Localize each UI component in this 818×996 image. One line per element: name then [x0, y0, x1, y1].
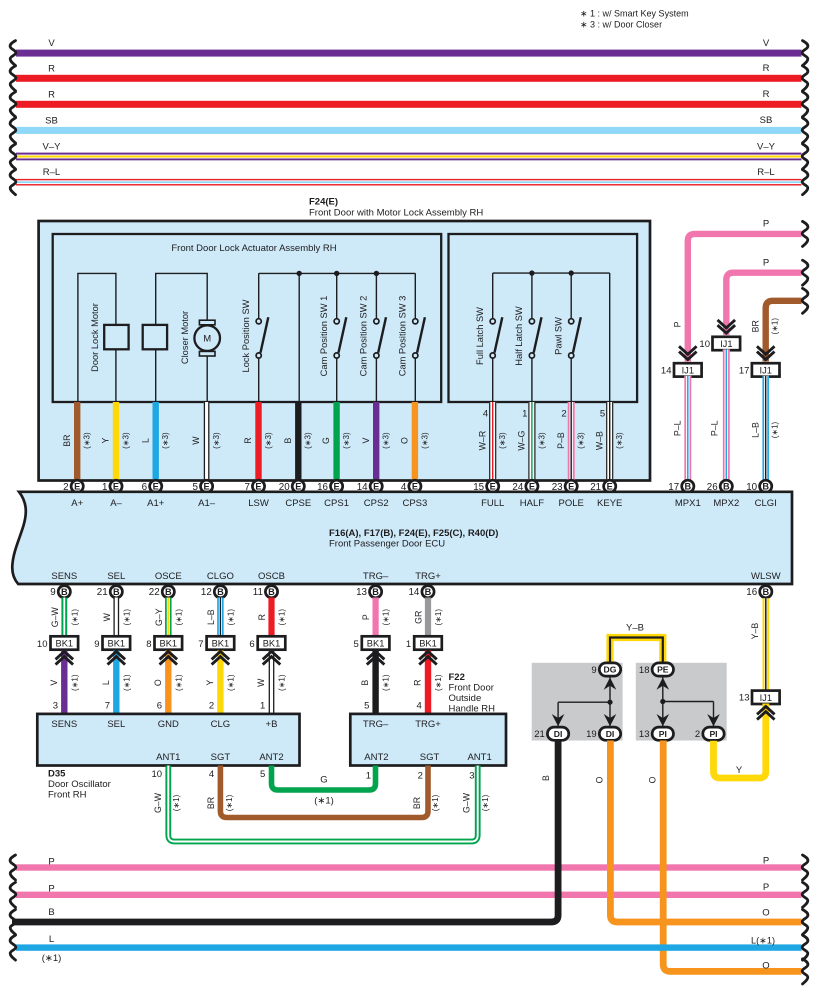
svg-text:R–L: R–L: [757, 167, 774, 178]
svg-text:SB: SB: [45, 115, 58, 126]
svg-text:L(∗1): L(∗1): [751, 936, 775, 946]
wire O orange from PI 13: [648, 741, 808, 984]
svg-text:16: 16: [746, 587, 757, 598]
svg-text:P–B: P–B: [556, 432, 566, 449]
switch Lock Position SW: [241, 273, 269, 402]
junction BK1 10: [37, 636, 78, 650]
wire G-Y to BK1: [154, 598, 183, 637]
svg-text:F16(A), F17(B), F24(E), F25(C): F16(A), F17(B), F24(E), F25(C), R40(D): [329, 528, 498, 539]
svg-text:10: 10: [699, 339, 710, 350]
svg-text:Pawl SW: Pawl SW: [553, 317, 563, 355]
wire CPSE vertical: [298, 273, 300, 402]
svg-text:P: P: [361, 614, 371, 620]
wire R top horizontal: [10, 89, 808, 117]
svg-text:A+: A+: [71, 498, 83, 509]
svg-text:R–L: R–L: [43, 167, 60, 178]
svg-text:G–W: G–W: [462, 792, 472, 813]
svg-text:CPSE: CPSE: [285, 498, 311, 509]
svg-text:SGT: SGT: [420, 752, 440, 763]
junction BK1 5: [354, 636, 390, 650]
wire P-L to MPX1: [673, 376, 692, 481]
pin 16(B) bottom: [746, 586, 772, 599]
wire stub V: [361, 402, 391, 481]
svg-text:P: P: [672, 321, 682, 327]
svg-text:2: 2: [209, 701, 214, 712]
pin 21(B) bottom: [97, 586, 123, 599]
svg-text:W–R: W–R: [477, 431, 487, 451]
svg-text:V: V: [48, 38, 55, 49]
svg-text:(∗3): (∗3): [577, 432, 586, 449]
svg-text:O: O: [400, 437, 410, 444]
svg-text:IJ1: IJ1: [682, 366, 694, 376]
wire Y-B WLSW: [750, 598, 769, 690]
svg-text:(∗3): (∗3): [537, 432, 546, 449]
wire BR antenna SGT-SGT: [206, 766, 440, 818]
svg-text:(∗3): (∗3): [420, 432, 429, 449]
wire V top horizontal: [10, 38, 808, 66]
svg-text:4: 4: [209, 769, 214, 780]
wire Y to lower block: [205, 651, 235, 714]
svg-text:SENS: SENS: [51, 571, 77, 582]
wire O orange from DI 19: [595, 741, 808, 935]
svg-text:2: 2: [695, 729, 700, 740]
svg-text:B: B: [113, 587, 120, 597]
wire P-L to MPX2: [710, 349, 730, 480]
wire Y-B bridge: [610, 622, 663, 666]
svg-text:(∗1): (∗1): [278, 674, 287, 691]
ECU bottom pin labels: [51, 571, 780, 582]
svg-text:Front RH: Front RH: [48, 790, 87, 801]
svg-text:DI: DI: [606, 729, 615, 739]
svg-text:CLGO: CLGO: [207, 571, 234, 582]
wire stub B: [283, 402, 313, 481]
pin 14(B) bottom: [408, 586, 434, 599]
svg-text:14: 14: [408, 587, 419, 598]
svg-text:(∗3): (∗3): [382, 432, 391, 449]
svg-text:L: L: [140, 438, 150, 443]
junction BK1 6: [249, 636, 285, 650]
svg-text:(∗3): (∗3): [342, 432, 351, 449]
wire R top horizontal: [10, 63, 808, 91]
switch Cam Position SW 1: [319, 273, 347, 402]
svg-text:Outside: Outside: [449, 693, 482, 704]
svg-text:W: W: [256, 678, 266, 687]
svg-text:P–L: P–L: [673, 420, 683, 436]
svg-text:13: 13: [739, 693, 750, 704]
gray junction box left: [532, 663, 623, 741]
block Front Passenger Door ECU: [12, 492, 792, 584]
svg-text:L: L: [49, 934, 54, 945]
svg-text:G: G: [320, 774, 327, 785]
svg-text:SENS: SENS: [51, 719, 77, 730]
svg-text:MPX2: MPX2: [713, 498, 739, 509]
pin 4(E): [401, 480, 421, 493]
svg-text:(∗1): (∗1): [172, 794, 181, 811]
svg-text:TRG–: TRG–: [363, 571, 389, 582]
svg-text:E: E: [255, 482, 261, 492]
svg-text:SB: SB: [760, 115, 773, 126]
wire R to lower block: [413, 651, 443, 714]
svg-text:R: R: [48, 63, 55, 74]
svg-text:B: B: [762, 587, 769, 597]
svg-text:ANT1: ANT1: [467, 752, 491, 763]
pin 2(E): [63, 480, 83, 493]
wire stub W-B: [594, 402, 624, 481]
svg-text:E: E: [568, 482, 574, 492]
connector 19 DI: [586, 727, 621, 740]
F22 bottom pin numbers: [366, 770, 475, 781]
svg-text:11: 11: [253, 587, 263, 598]
svg-text:P: P: [48, 883, 54, 894]
svg-text:∗ 1 : w/ Smart Key System: ∗ 1 : w/ Smart Key System: [580, 9, 689, 19]
svg-text:18: 18: [639, 665, 650, 676]
svg-text:B: B: [723, 482, 730, 492]
svg-text:R: R: [243, 437, 253, 443]
svg-text:E: E: [529, 482, 535, 492]
svg-text:10: 10: [37, 639, 48, 650]
svg-text:9: 9: [50, 587, 55, 598]
svg-text:B: B: [372, 587, 379, 597]
wire P bottom 2: [10, 882, 808, 907]
svg-text:Cam Position SW 1: Cam Position SW 1: [319, 296, 329, 377]
wire SB top horizontal: [10, 115, 808, 143]
pin 23(E): [552, 480, 578, 493]
svg-text:∗ 3 : w/ Door Closer: ∗ 3 : w/ Door Closer: [580, 20, 662, 30]
svg-text:LSW: LSW: [248, 498, 269, 509]
wire B black from DI: [10, 741, 558, 935]
wire KEYE vertical: [609, 273, 611, 402]
door lock motor M1 loop: [78, 273, 129, 402]
svg-text:1: 1: [366, 770, 371, 781]
note w/ Smart Key System: [580, 9, 689, 19]
pin 7(E): [244, 480, 264, 493]
svg-text:(∗1): (∗1): [434, 609, 443, 626]
svg-text:B: B: [684, 482, 691, 492]
pin 24(E): [512, 480, 538, 493]
svg-text:ANT2: ANT2: [364, 752, 388, 763]
svg-text:(∗1): (∗1): [227, 609, 236, 626]
svg-text:(∗3): (∗3): [161, 432, 170, 449]
svg-text:Half Latch SW: Half Latch SW: [514, 306, 524, 366]
svg-text:TRG–: TRG–: [363, 719, 389, 730]
node junction CPS2: [374, 271, 379, 276]
svg-text:SEL: SEL: [107, 719, 125, 730]
wire switch bus box1: [259, 272, 416, 274]
svg-text:ANT2: ANT2: [259, 752, 283, 763]
svg-text:CPS3: CPS3: [402, 498, 427, 509]
pin 13(B) bottom: [356, 586, 382, 599]
wire G-W to BK1: [50, 598, 79, 637]
junction BK1 1: [406, 636, 442, 650]
svg-text:SEL: SEL: [107, 571, 125, 582]
svg-text:5: 5: [354, 639, 359, 650]
svg-text:E: E: [373, 482, 379, 492]
switch Cam Position SW 2: [358, 273, 386, 402]
svg-text:G–W: G–W: [50, 606, 60, 627]
svg-text:Y: Y: [736, 765, 743, 776]
svg-text:BK1: BK1: [367, 639, 385, 649]
svg-text:P: P: [48, 856, 54, 867]
wire stub G: [321, 402, 351, 481]
svg-text:(∗1): (∗1): [174, 674, 183, 691]
svg-text:1: 1: [406, 639, 411, 650]
svg-text:E: E: [490, 482, 496, 492]
svg-text:(∗1): (∗1): [434, 674, 443, 691]
switch Cam Position SW 3: [397, 273, 425, 402]
svg-text:G–Y: G–Y: [154, 608, 164, 626]
switch Half Latch SW: [514, 273, 542, 402]
svg-text:(∗3): (∗3): [83, 432, 92, 449]
svg-text:CLGI: CLGI: [755, 498, 777, 509]
svg-text:FULL: FULL: [481, 498, 504, 509]
svg-text:TRG+: TRG+: [415, 719, 441, 730]
wire P bottom 1: [10, 855, 808, 880]
svg-text:G–W: G–W: [153, 792, 163, 813]
svg-text:V–Y: V–Y: [43, 142, 62, 153]
svg-text:E: E: [113, 482, 119, 492]
svg-text:B: B: [425, 587, 432, 597]
svg-text:SGT: SGT: [211, 752, 231, 763]
svg-text:Cam Position SW 3: Cam Position SW 3: [397, 296, 407, 377]
svg-text:E: E: [74, 482, 80, 492]
svg-text:IJ1: IJ1: [720, 339, 732, 349]
svg-text:DI: DI: [554, 729, 563, 739]
svg-text:Y–B: Y–B: [750, 623, 760, 640]
wire G antenna ANT2-ANT2: [272, 766, 376, 807]
svg-text:6: 6: [157, 701, 162, 712]
svg-text:CPS1: CPS1: [324, 498, 349, 509]
svg-text:BK1: BK1: [160, 639, 178, 649]
connector 13 PI: [639, 727, 674, 740]
wire switch bus box2: [493, 272, 610, 274]
wire GR to BK1: [414, 598, 443, 637]
svg-text:7: 7: [198, 639, 203, 650]
wire P to BK1: [361, 598, 390, 637]
svg-text:POLE: POLE: [559, 498, 584, 509]
wire O to lower block: [153, 651, 183, 714]
pin 14(E): [357, 480, 383, 493]
wire stub P-B: [556, 402, 586, 481]
svg-text:R: R: [48, 89, 55, 100]
svg-text:BK1: BK1: [108, 639, 126, 649]
svg-text:1: 1: [522, 409, 527, 420]
wire stub R: [243, 402, 273, 481]
junction BK1 9: [94, 636, 130, 650]
wire stub Y: [101, 402, 131, 481]
chevron into IJ1 10: [719, 321, 734, 333]
svg-text:V–Y: V–Y: [757, 141, 776, 152]
svg-text:B: B: [165, 587, 172, 597]
svg-text:ANT1: ANT1: [156, 752, 180, 763]
svg-text:(∗3): (∗3): [615, 432, 624, 449]
svg-text:A1+: A1+: [147, 498, 165, 509]
svg-text:P: P: [763, 855, 769, 866]
wire R to BK1: [257, 598, 286, 637]
svg-text:3: 3: [53, 701, 58, 712]
junction IJ1 10: [699, 337, 740, 350]
switch Pawl SW: [553, 273, 581, 402]
switch Full Latch SW: [475, 273, 503, 402]
D35 bottom pin numbers: [152, 769, 266, 780]
svg-text:Y: Y: [205, 680, 215, 686]
svg-text:(∗1): (∗1): [481, 794, 490, 811]
node junction CPSE: [297, 271, 302, 276]
svg-text:6: 6: [249, 639, 254, 650]
wire BR brown feed: [751, 288, 808, 361]
svg-text:Front Door: Front Door: [449, 683, 494, 694]
svg-text:10: 10: [152, 769, 163, 780]
svg-text:R: R: [763, 63, 770, 74]
pin 20(E): [279, 480, 305, 493]
svg-text:Front Door with Motor Lock Ass: Front Door with Motor Lock Assembly RH: [309, 208, 483, 219]
block D35 Door Oscillator Front RH: [37, 714, 299, 801]
wire L bottom: [10, 934, 808, 964]
pin 26(B): [707, 480, 733, 493]
svg-text:Lock Position SW: Lock Position SW: [241, 299, 251, 372]
svg-text:MPX1: MPX1: [675, 498, 701, 509]
svg-text:5: 5: [364, 701, 369, 712]
svg-text:P–L: P–L: [710, 420, 720, 436]
pin 9(B) bottom: [50, 586, 70, 599]
svg-text:TRG+: TRG+: [415, 571, 441, 582]
svg-text:B: B: [762, 482, 769, 492]
wire DG branch lines: [552, 676, 617, 727]
svg-text:17: 17: [739, 365, 750, 376]
svg-text:L–B: L–B: [750, 422, 760, 438]
svg-text:(∗1): (∗1): [278, 609, 287, 626]
wire stub L: [140, 402, 170, 481]
gray junction box right: [636, 663, 727, 741]
svg-text:3: 3: [469, 770, 474, 781]
svg-text:9: 9: [94, 639, 99, 650]
svg-text:(∗1): (∗1): [431, 794, 440, 811]
inner block latch switches: [449, 234, 638, 402]
wire G-W antenna ANT1-ANT1: [153, 766, 490, 842]
svg-text:P: P: [763, 258, 769, 269]
svg-text:G: G: [321, 437, 331, 444]
svg-text:O: O: [762, 961, 769, 972]
svg-text:(∗1): (∗1): [771, 421, 780, 438]
svg-text:Full Latch SW: Full Latch SW: [475, 307, 485, 365]
svg-text:B: B: [360, 680, 370, 686]
node junction CPS1: [334, 271, 339, 276]
wire V-Y top horizontal: [10, 141, 808, 169]
svg-text:W–B: W–B: [594, 431, 604, 450]
wire W to lower block: [256, 651, 286, 714]
svg-text:M: M: [203, 334, 211, 345]
svg-text:BR: BR: [62, 434, 72, 446]
chevron into IJ1 17: [758, 347, 773, 359]
svg-text:PI: PI: [659, 729, 667, 739]
svg-text:5: 5: [260, 769, 265, 780]
svg-text:(∗1): (∗1): [70, 609, 79, 626]
svg-text:9: 9: [591, 665, 596, 676]
pin 11(B) bottom: [253, 586, 278, 599]
svg-text:(∗3): (∗3): [212, 432, 221, 449]
junction BK1 7: [198, 636, 234, 650]
svg-text:BK1: BK1: [56, 639, 74, 649]
svg-text:E: E: [295, 482, 301, 492]
svg-text:PE: PE: [657, 665, 669, 675]
wire L-B to BK1: [206, 598, 235, 637]
pin 22(B) bottom: [149, 586, 175, 599]
svg-text:(∗3): (∗3): [304, 432, 313, 449]
svg-text:Cam Position SW 2: Cam Position SW 2: [358, 296, 368, 377]
svg-text:(∗1): (∗1): [225, 794, 234, 811]
svg-text:B: B: [541, 775, 551, 781]
svg-text:Door Lock Motor: Door Lock Motor: [90, 303, 100, 372]
svg-text:L–B: L–B: [206, 609, 216, 625]
svg-text:E: E: [153, 482, 159, 492]
svg-text:12: 12: [201, 587, 212, 598]
svg-text:Handle RH: Handle RH: [449, 704, 496, 715]
svg-text:BK1: BK1: [419, 639, 437, 649]
svg-text:4: 4: [483, 409, 488, 420]
connector 21 DI: [534, 727, 569, 740]
svg-text:A1–: A1–: [198, 498, 216, 509]
svg-text:BK1: BK1: [212, 639, 230, 649]
svg-text:+B: +B: [266, 719, 278, 730]
connector 9 DG: [591, 663, 620, 676]
svg-text:19: 19: [586, 729, 597, 740]
wire L to lower block: [101, 651, 131, 714]
svg-text:B: B: [268, 587, 275, 597]
svg-text:DG: DG: [604, 665, 617, 675]
svg-text:Closer Motor: Closer Motor: [180, 311, 190, 364]
pin 6(E): [142, 480, 162, 493]
wire Y from IJ1 to PI: [714, 704, 774, 779]
svg-text:(∗1): (∗1): [122, 609, 131, 626]
inner block Front Door Lock Actuator Assembly RH: [53, 234, 442, 402]
svg-text:(∗1): (∗1): [174, 609, 183, 626]
svg-text:(∗1): (∗1): [122, 674, 131, 691]
svg-text:B: B: [217, 587, 224, 597]
pin 21(E): [590, 480, 616, 493]
svg-text:R: R: [257, 614, 267, 620]
wire stub O: [400, 402, 430, 481]
svg-text:R: R: [763, 89, 770, 100]
wire R-L top horizontal: [10, 167, 808, 195]
svg-text:O: O: [648, 776, 658, 783]
wire L-B to CLGI: [750, 376, 779, 481]
svg-text:V: V: [49, 680, 59, 686]
pin 5(E): [193, 480, 213, 493]
svg-text:(∗3): (∗3): [121, 432, 130, 449]
svg-text:CLG: CLG: [211, 719, 231, 730]
svg-text:(∗1): (∗1): [382, 609, 391, 626]
svg-text:2: 2: [418, 770, 423, 781]
wire stub W-G: [517, 402, 547, 481]
wire P pink feed 2: [726, 258, 808, 336]
wire W to BK1: [102, 598, 131, 637]
connector 18 PE: [639, 663, 674, 676]
svg-text:W: W: [102, 612, 112, 621]
svg-text:(∗1): (∗1): [42, 953, 62, 964]
svg-text:4: 4: [417, 701, 422, 712]
svg-text:OSCB: OSCB: [258, 571, 285, 582]
note w/ Door Closer: [580, 20, 662, 30]
wire B to lower block: [360, 651, 390, 714]
svg-text:(∗1): (∗1): [70, 674, 79, 691]
svg-text:22: 22: [149, 587, 160, 598]
svg-text:B: B: [283, 438, 293, 444]
svg-text:P: P: [763, 882, 769, 893]
junction BK1 8: [146, 636, 182, 650]
svg-text:5: 5: [600, 409, 605, 420]
svg-text:F24(E): F24(E): [309, 197, 338, 208]
svg-text:L: L: [101, 680, 111, 685]
wire P pink feed 1: [672, 219, 808, 362]
